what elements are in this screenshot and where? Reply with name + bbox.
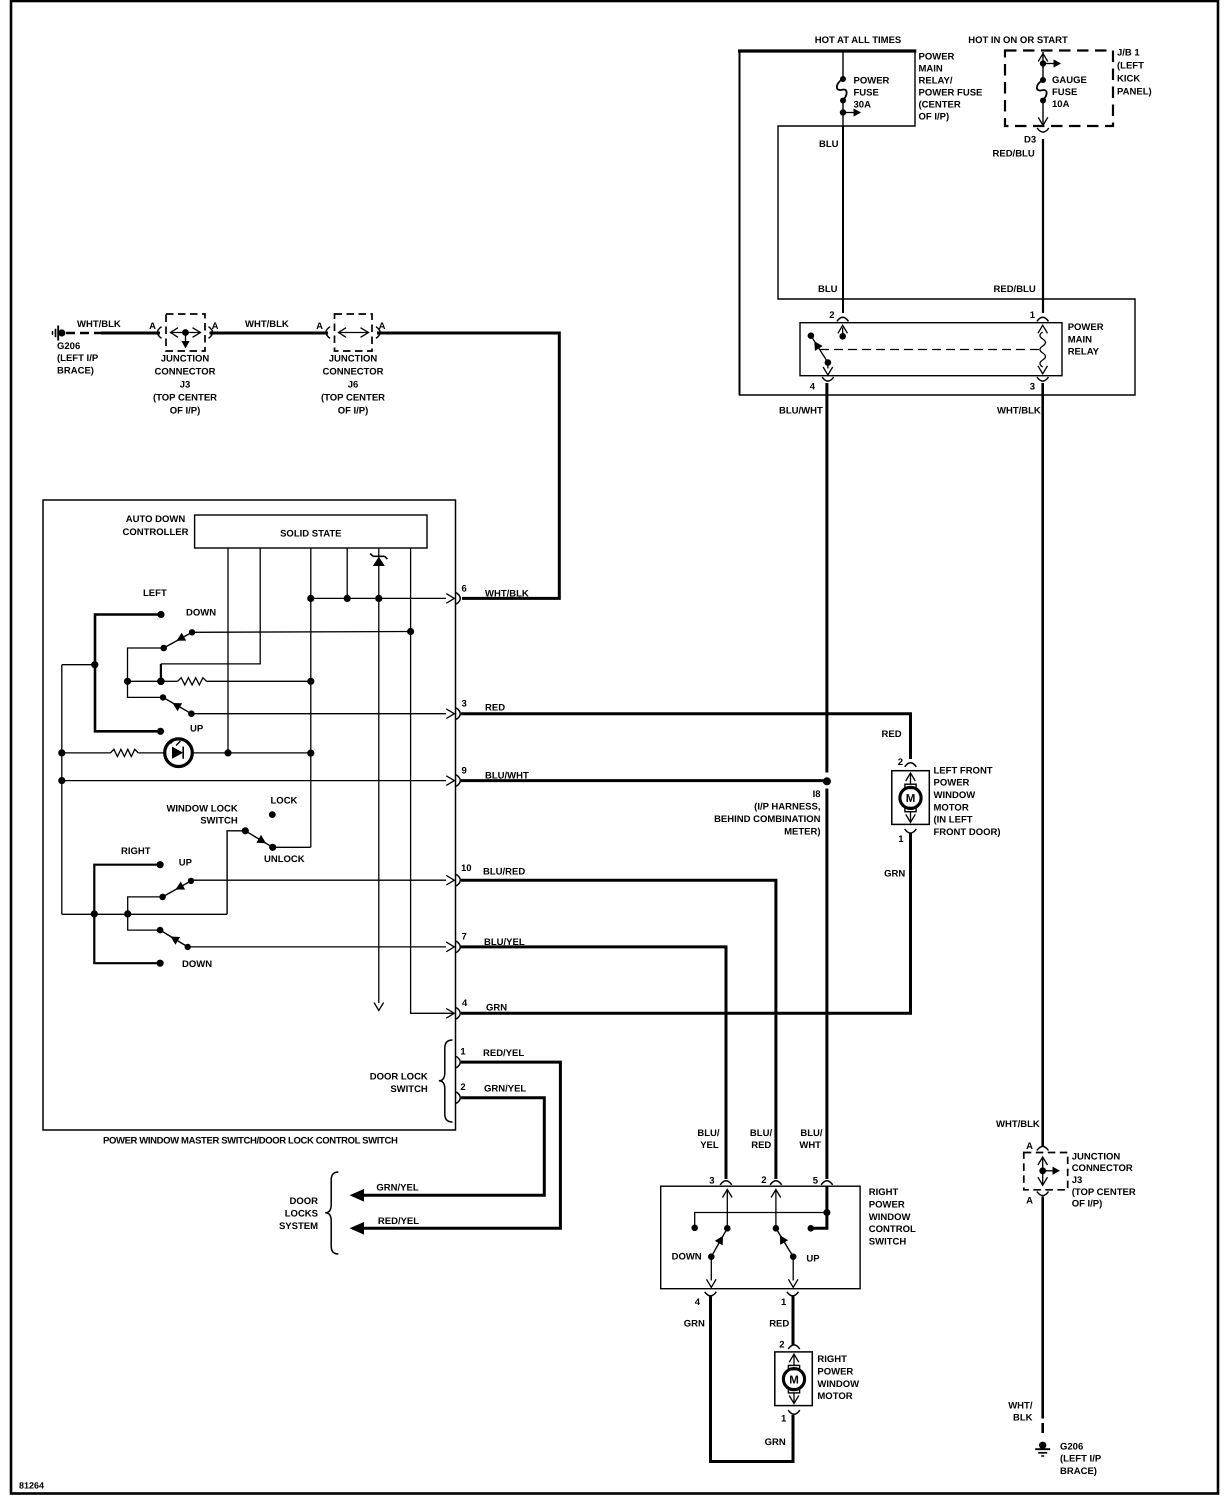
svg-text:WINDOW: WINDOW [869,1212,911,1223]
svg-text:(LEFT I/P: (LEFT I/P [57,353,99,364]
svg-text:LEFT: LEFT [143,588,167,599]
svg-text:YEL: YEL [700,1140,719,1151]
svg-text:SYSTEM: SYSTEM [279,1221,318,1232]
wire WHT/BLK relay pin 3 down to junction connector J3 [1041,383,1044,1146]
control switch UP output arrow pin 1 [792,1257,794,1281]
svg-text:RED/BLU: RED/BLU [993,149,1035,160]
svg-text:J/B 1: J/B 1 [1117,47,1140,58]
solid state output wire 5 (x379) with zener diode [378,548,380,1003]
svg-text:2: 2 [898,757,903,768]
svg-text:SWITCH: SWITCH [869,1236,907,1247]
svg-text:(LEFT: (LEFT [1117,60,1144,71]
svg-text:J6: J6 [348,379,359,390]
control switch DOWN contact arrow to pin 3 [726,1191,728,1229]
wire BLU/YEL master pin 7 to control switch pin 3 [461,947,726,1179]
door lock pin 2 connector [456,1092,460,1104]
wire GRN left motor to master pin 4 [461,833,911,1013]
relay box left edge wire [739,51,741,395]
svg-text:7: 7 [462,932,467,943]
wire BLU/WHT relay pin 4 down to I8 [825,383,828,773]
right switch DOWN arm [157,927,164,934]
window lock pivot rail x227 [227,831,245,915]
svg-text:M: M [789,1374,799,1386]
svg-text:FUSE: FUSE [1052,87,1077,98]
svg-text:OF I/P): OF I/P) [919,111,950,122]
left switch DOWN arm [160,645,167,652]
pin 9 connector [456,775,460,787]
svg-text:RELAY: RELAY [1068,347,1100,358]
svg-text:RIGHT: RIGHT [869,1187,899,1198]
relay POWER MAIN RELAY box [800,323,1062,376]
svg-text:GRN: GRN [684,1319,705,1330]
svg-text:5: 5 [813,1176,819,1187]
door lock pin 1 connector [456,1056,460,1068]
master switch pin 6 net [311,597,446,599]
svg-text:GAUGE: GAUGE [1052,75,1087,86]
junction connector J3 (left) arcs [157,327,161,339]
motor M symbol (left front) [905,784,916,788]
svg-text:3: 3 [462,699,467,710]
control switch pin 1 connector [787,1292,799,1296]
svg-text:WHT/BLK: WHT/BLK [485,588,529,599]
svg-text:(TOP CENTER: (TOP CENTER [321,392,385,403]
svg-text:WINDOW: WINDOW [817,1379,859,1390]
right motor pin 2 connector [788,1345,800,1349]
svg-text:DOWN: DOWN [186,608,216,619]
svg-text:BRACE): BRACE) [57,365,94,376]
solid state down-arrow end [374,1003,384,1011]
svg-text:CONNECTOR: CONNECTOR [1072,1163,1133,1174]
motor M symbol (right) [788,1365,799,1369]
svg-text:BLU: BLU [819,139,839,150]
svg-text:RED/YEL: RED/YEL [378,1216,419,1227]
junction I8 splice [823,777,831,785]
svg-text:HOT AT ALL TIMES: HOT AT ALL TIMES [815,35,902,46]
right motor pin 1 connector [788,1410,800,1414]
left switch UP arm [160,694,166,700]
svg-text:POWER WINDOW MASTER SWITCH/DOO: POWER WINDOW MASTER SWITCH/DOOR LOCK CON… [103,1136,398,1147]
wire BLU from bus to power fuse [842,52,844,79]
svg-text:RED: RED [882,729,902,740]
control switch UP contact arrow to pin 2 [775,1191,777,1229]
svg-text:BLU/RED: BLU/RED [483,867,525,878]
junction connector J3 (left) dashed box [166,314,205,351]
junction connector J3 (right) dashed box [1024,1153,1068,1190]
master switch pin 3 net (RED) [191,713,446,715]
left motor down arrow [910,812,912,821]
svg-text:CONTROLLER: CONTROLLER [123,527,189,538]
svg-text:CONNECTOR: CONNECTOR [154,366,215,377]
svg-text:1: 1 [781,1414,787,1425]
left switch DOWN output wire to x411 [192,631,411,634]
right motor up arrow [793,1355,795,1365]
svg-text:UNLOCK: UNLOCK [264,854,305,865]
svg-text:WHT/BLK: WHT/BLK [245,319,289,330]
junction on left bracket [91,661,98,668]
svg-text:METER): METER) [784,826,820,837]
svg-text:WHT/BLK: WHT/BLK [997,406,1041,417]
svg-text:POWER: POWER [934,778,970,789]
svg-text:OF I/P): OF I/P) [1072,1199,1103,1210]
solid state output wire 2 (x260) [161,548,260,664]
solid state box [195,515,427,548]
svg-text:3: 3 [1030,382,1035,393]
junction connector J3 (left) internals [171,332,200,334]
window lock switch pivot and arm [242,827,249,834]
junction connector J3 (right) internals [1042,1158,1044,1184]
svg-text:SOLID STATE: SOLID STATE [280,529,341,540]
right switch UP arm [159,894,166,901]
control switch pin 2 connector [770,1181,782,1185]
svg-text:LOCK: LOCK [271,796,298,807]
wire GRN/YEL pin 2 to door locks system [362,1098,544,1196]
svg-text:81264: 81264 [19,1481,44,1491]
control switch pin 5 connector [821,1181,833,1185]
svg-text:WINDOW LOCK: WINDOW LOCK [166,803,237,814]
svg-text:POWER: POWER [919,51,955,62]
wire GRN control switch pin 4 to right motor [711,1297,794,1462]
svg-text:FUSE: FUSE [854,88,879,99]
svg-text:RED/BLU: RED/BLU [994,284,1036,295]
svg-text:4: 4 [462,998,468,1009]
svg-text:WHT/: WHT/ [1008,1401,1033,1412]
door locks system brace [325,1172,338,1254]
svg-text:CONNECTOR: CONNECTOR [322,366,383,377]
svg-text:WHT/BLK: WHT/BLK [996,1119,1040,1130]
svg-text:3: 3 [709,1176,714,1187]
svg-text:KICK: KICK [1117,73,1140,84]
junction connector J6 arcs [326,327,330,339]
wire RED/BLU to relay pin 1 [1042,139,1044,313]
svg-text:FRONT DOOR): FRONT DOOR) [934,827,1001,838]
svg-text:UP: UP [806,1254,820,1265]
svg-text:(I/P HARNESS,: (I/P HARNESS, [754,801,820,812]
svg-text:(IN LEFT: (IN LEFT [934,815,973,826]
svg-text:4: 4 [810,382,816,393]
left switch pivot link [128,648,164,697]
left motor pin 1 connector [905,829,917,833]
svg-text:RELAY/: RELAY/ [919,75,953,86]
svg-text:DOWN: DOWN [182,959,212,970]
svg-text:BLU: BLU [818,284,838,295]
svg-text:1: 1 [781,1297,787,1308]
svg-text:2: 2 [460,1082,465,1093]
svg-text:WINDOW: WINDOW [934,790,976,801]
relay coil winding [1040,332,1046,367]
left motor pin 2 connector [905,763,917,767]
svg-text:6: 6 [462,584,467,595]
svg-text:AUTO DOWN: AUTO DOWN [126,514,186,525]
gauge fuse exit arrow [1042,101,1044,126]
relay pin 1 connector arc and label [1037,317,1049,321]
svg-text:10: 10 [461,863,472,874]
svg-text:UP: UP [190,724,204,735]
control switch pin 5 feed [812,1186,827,1228]
relay switch contacts and arm [808,332,815,339]
svg-text:9: 9 [462,766,467,777]
left front power window motor box [892,771,930,825]
svg-text:2: 2 [761,1175,766,1186]
relay pin 4 connector arc and label [822,377,834,381]
svg-text:POWER: POWER [1068,322,1104,333]
svg-text:DOOR: DOOR [290,1196,319,1207]
svg-text:PANEL): PANEL) [1117,86,1152,97]
wire WHT/BLK ground to J3 [101,332,160,335]
control switch crossover link [695,1213,827,1228]
arrow to door locks system RED/YEL [350,1222,365,1235]
master switch pin 10 net (BLU/RED) [191,879,446,881]
master switch pin 7 net (BLU/YEL) [188,946,446,948]
master switch pin 9 net (BLU/WHT) [62,780,446,782]
svg-text:GRN: GRN [765,1437,786,1448]
svg-text:DOOR LOCK: DOOR LOCK [370,1072,428,1083]
pin 6 connector [456,593,460,605]
wire RED/YEL pin 1 to door locks system [362,1062,560,1228]
ground G206 (right) [1039,1442,1046,1449]
svg-text:BLU/: BLU/ [697,1128,720,1139]
svg-text:2: 2 [829,310,834,321]
wire BLU/WHT I8 down to right window switch pin 5 [825,789,828,1180]
svg-text:POWER: POWER [869,1200,905,1211]
fuse GAUGE FUSE 10A [1040,77,1046,83]
svg-text:MOTOR: MOTOR [817,1391,852,1402]
svg-text:I8: I8 [813,789,821,800]
hot-at-all-times bus (thick top edge) [738,49,916,52]
svg-text:GRN/YEL: GRN/YEL [484,1084,526,1095]
svg-text:BRACE): BRACE) [1060,1466,1097,1477]
svg-text:G206: G206 [57,341,80,352]
relay switch to pin 4 arrow [827,363,829,369]
svg-text:BLU/: BLU/ [800,1128,823,1139]
svg-text:30A: 30A [854,100,872,111]
gauge fuse tap with arrow [1040,60,1046,66]
control switch DOWN output arrow pin 4 [710,1257,712,1281]
svg-text:10A: 10A [1052,99,1070,110]
svg-text:RED: RED [769,1319,789,1330]
right switch common bracket [94,865,160,964]
svg-text:RIGHT: RIGHT [817,1354,847,1365]
left motor up arrow [910,774,912,784]
svg-text:1: 1 [460,1047,466,1058]
junction connector J6 internals [339,332,368,334]
svg-text:RED/YEL: RED/YEL [483,1048,524,1059]
right motor down arrow [793,1393,795,1402]
svg-text:BLK: BLK [1013,1413,1033,1424]
svg-text:BLU/WHT: BLU/WHT [779,406,823,417]
svg-text:(LEFT I/P: (LEFT I/P [1060,1454,1102,1465]
svg-text:MOTOR: MOTOR [934,802,969,813]
solid state output wire 6 (x411) [411,548,453,1013]
ground lead dash [1041,1423,1044,1433]
wire BLU/RED master pin 10 to control switch pin 2 [461,880,776,1179]
svg-text:J3: J3 [1072,1175,1083,1186]
resistor R1 and link to solid state [157,678,165,686]
relay pin 2 inner arrow and dot [842,328,844,336]
svg-text:MAIN: MAIN [919,63,943,74]
svg-text:POWER: POWER [854,76,890,87]
svg-text:A: A [379,321,386,332]
control switch pin 3 connector [720,1181,732,1185]
svg-text:RIGHT: RIGHT [121,846,151,857]
pin 3 connector [456,708,460,720]
svg-text:G206: G206 [1060,1441,1083,1452]
svg-text:J3: J3 [180,379,191,390]
svg-text:DOWN: DOWN [672,1252,702,1263]
ground G206 (left) [52,331,54,335]
junction block J/B 1 dashed box [1005,51,1113,127]
control switch DOWN switch [708,1253,715,1260]
svg-text:POWER: POWER [817,1367,853,1378]
svg-text:GRN/YEL: GRN/YEL [376,1183,418,1194]
svg-text:POWER FUSE: POWER FUSE [919,87,983,98]
svg-text:2: 2 [779,1340,784,1351]
svg-text:RED: RED [485,703,505,714]
window lock UNLOCK wire to x311 [273,846,311,848]
svg-text:WHT/BLK: WHT/BLK [77,319,121,330]
svg-text:JUNCTION: JUNCTION [329,353,378,364]
svg-text:A: A [1026,1196,1033,1207]
right power window motor box [775,1352,813,1406]
svg-text:M: M [906,793,916,805]
svg-text:(TOP CENTER: (TOP CENTER [153,392,217,403]
door lock switch brace [439,1040,453,1122]
wire RED control switch pin 1 to right motor pin 2 [792,1297,795,1346]
relay pin 3 connector arc and label [1037,377,1049,381]
svg-text:(CENTER: (CENTER [919,99,961,110]
right switch pivot link [128,897,163,930]
svg-text:UP: UP [179,857,193,868]
right power window control switch box [661,1186,860,1289]
pin 4 connector [456,1008,460,1020]
connector D3 arc [1037,128,1049,132]
svg-text:(TOP CENTER: (TOP CENTER [1072,1187,1136,1198]
svg-text:SWITCH: SWITCH [200,816,238,827]
svg-text:MAIN: MAIN [1068,334,1092,345]
wire BLU power fuse to relay pin 2 [842,101,844,127]
svg-text:1: 1 [1030,310,1036,321]
junction connector J3 (right) arcs [1037,1146,1049,1150]
wire WHT/BLK J3 down to ground [1041,1197,1044,1419]
pin 7 connector [456,941,460,953]
left switch common bracket [95,615,161,732]
svg-text:GRN: GRN [884,869,905,880]
solid state output wire 3 (x311) [310,548,312,847]
solid state output wire 1 (x228) [227,548,229,753]
power fuse output tap with arrow [840,109,846,115]
svg-text:RED: RED [751,1140,771,1151]
power main relay / power fuse box outline [740,51,1136,395]
svg-text:A: A [316,321,323,332]
fuse POWER FUSE 30A [840,76,846,82]
wire WHT/BLK J3 to J6 [210,332,329,335]
svg-text:JUNCTION: JUNCTION [161,353,210,364]
svg-text:BEHIND COMBINATION: BEHIND COMBINATION [714,814,821,825]
svg-text:BLU/: BLU/ [750,1128,773,1139]
svg-text:1: 1 [898,834,904,845]
arrow to door locks system GRN/YEL [350,1189,365,1202]
svg-text:WHT: WHT [799,1140,821,1151]
illumination LED with resistor [62,752,111,754]
master switch pin 4 inner arrow [446,1009,454,1019]
junction connector J6 dashed box [335,314,373,351]
wire BLU/WHT master pin 9 to I8 splice [461,779,824,782]
svg-text:A: A [1026,1141,1033,1152]
ground dash lead [66,332,102,335]
svg-text:OF I/P): OF I/P) [170,405,201,416]
svg-text:SWITCH: SWITCH [390,1084,428,1095]
svg-text:CONTROL: CONTROL [869,1224,916,1235]
svg-text:JUNCTION: JUNCTION [1072,1151,1121,1162]
switch common rail y914 [62,913,227,915]
relay internal dashed link [820,349,1039,351]
svg-text:4: 4 [695,1297,701,1308]
svg-text:LEFT FRONT: LEFT FRONT [934,765,993,776]
svg-text:OF I/P): OF I/P) [338,405,369,416]
solid state output wire 4 (x347) [346,548,348,598]
svg-text:LOCKS: LOCKS [285,1208,318,1219]
svg-text:A: A [212,321,219,332]
wire inside J/B1 down to gauge fuse [1042,52,1044,80]
power window master switch box [43,500,456,1130]
relay coil bottom arrow pin 3 [1038,366,1048,374]
pin 10 connector [456,874,460,886]
svg-text:HOT IN ON OR START: HOT IN ON OR START [968,35,1068,46]
left rail x61 [61,665,63,915]
window lock LOCK contact [269,811,276,818]
svg-text:A: A [149,321,156,332]
relay pin 2 connector arc and label [837,317,849,321]
svg-text:D3: D3 [1024,135,1036,146]
wire RED master pin 3 to left motor [461,714,911,759]
control switch pin 4 connector [705,1292,717,1296]
wire WHT/BLK J6 to master switch pin 6 [377,333,559,598]
relay coil top arrow pin 1 [1038,325,1048,333]
control switch UP switch [790,1253,797,1260]
